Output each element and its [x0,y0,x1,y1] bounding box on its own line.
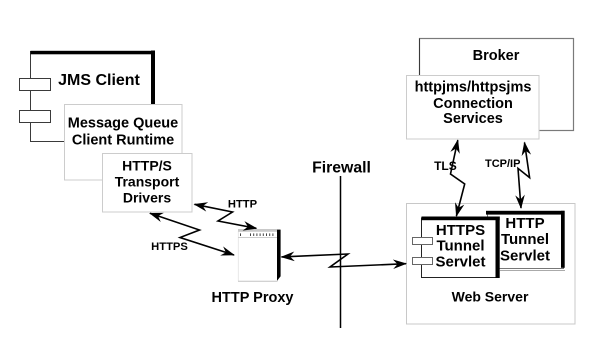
box Web Server [407,204,576,325]
box httpjms/httpsjms Connection Services [407,76,540,140]
box Message Queue Client Runtime [65,105,183,181]
svg-text:Servlet: Servlet [500,248,550,265]
svg-text:Firewall: Firewall [312,160,371,177]
svg-text:Message Queue: Message Queue [68,116,178,132]
box HTTPS Tunnel Servlet [422,217,500,279]
box Broker [420,39,574,131]
arrow TLS (double-headed zigzag) [451,140,465,216]
svg-text:httpjms/httpsjms: httpjms/httpsjms [415,80,532,96]
label HTTP/S Transport Drivers [115,158,180,206]
svg-text:TCP/IP: TCP/IP [485,158,520,170]
svg-text:Servlet: Servlet [435,254,485,271]
svg-text:HTTP: HTTP [505,215,544,232]
svg-text:Client Runtime: Client Runtime [72,133,174,149]
label Message Queue Client Runtime [68,116,178,149]
label httpjms/httpsjms Connection Services [415,80,532,128]
svg-text:Broker: Broker [473,48,520,64]
svg-text:Tunnel: Tunnel [436,238,484,255]
svg-text:Transport: Transport [115,174,180,190]
svg-text:HTTP Proxy: HTTP Proxy [212,290,294,306]
svg-text:HTTP/S: HTTP/S [122,158,172,174]
svg-text:Tunnel: Tunnel [501,231,549,248]
svg-text:HTTPS: HTTPS [151,241,188,253]
box JMS Client [31,51,156,142]
arrow TCP/IP (double-headed zigzag) [518,143,530,209]
port JMS 1 [20,79,51,91]
svg-text:HTTP: HTTP [228,199,258,211]
svg-text:Connection: Connection [433,96,513,112]
icon HTTP Proxy [238,229,281,281]
firewall line [340,176,342,328]
svg-text:TLS: TLS [434,159,457,173]
port JMS 2 [20,111,51,123]
svg-text:Drivers: Drivers [123,190,171,206]
arrow HTTP (double-headed zigzag) [195,204,257,228]
box HTTP Tunnel Servlet [486,211,565,271]
label HTTPS Tunnel Servlet [435,222,485,271]
svg-text:JMS Client: JMS Client [58,72,140,89]
arrow through firewall (HTTP Proxy to Web Server) [282,254,407,267]
arrow HTTPS (double-headed zigzag) [150,213,234,255]
port HTTPS servlet 2 [413,258,433,265]
svg-text:Services: Services [443,111,503,127]
port HTTPS servlet 1 [413,238,433,245]
label HTTP Tunnel Servlet [500,215,550,265]
svg-text:HTTPS: HTTPS [436,222,485,239]
svg-text:Web Server: Web Server [452,289,529,305]
box HTTP/S Transport Drivers [103,154,193,213]
